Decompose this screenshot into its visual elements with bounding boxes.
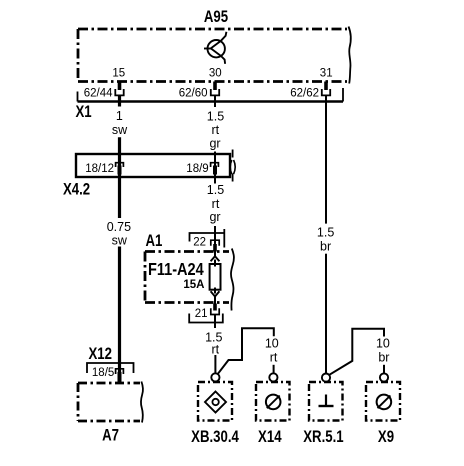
socket 21 pin bar: [213, 304, 217, 311]
X9 circle-slash symbol: [377, 395, 392, 410]
wire br from pin 31 upper segment: [325, 95, 327, 223]
branch to X9: diagonal from XR.5.1 node: [329, 329, 384, 375]
svg-text:F11-A24: F11-A24: [148, 260, 204, 280]
pin 15 stub: [118, 82, 122, 91]
wire into X14: [273, 365, 275, 374]
svg-text:rt: rt: [211, 123, 219, 137]
svg-text:62/62: 62/62: [290, 87, 319, 99]
branch to X14: diagonal from XB.30.4 node: [218, 328, 274, 374]
svg-text:X4.2: X4.2: [63, 180, 90, 199]
svg-text:A7: A7: [102, 426, 119, 445]
wire out of fuse: [214, 288, 216, 294]
X4.2 right end upper tick: [232, 150, 234, 158]
svg-text:0.75: 0.75: [107, 220, 131, 234]
node circle above XR.5.1: [322, 374, 330, 382]
X4.2 right break mark: [230, 160, 232, 174]
node circle above X9: [380, 373, 388, 381]
X4.2 pin hook 18/12: [116, 163, 124, 167]
svg-text:A1: A1: [146, 232, 163, 251]
X14 circle-slash symbol: [266, 395, 281, 410]
pin 31 stub: [324, 82, 328, 91]
svg-text:1.5: 1.5: [207, 109, 224, 123]
device box A7 top edge: [78, 382, 140, 385]
terminal box XB.30.4: [198, 382, 232, 421]
svg-text:gr: gr: [209, 210, 220, 224]
X12 pin bar: [118, 372, 122, 382]
svg-text:1.5: 1.5: [207, 183, 224, 197]
pin 30 socket: [211, 89, 219, 95]
X4.2 right end lower tick: [232, 174, 234, 182]
svg-text:rt: rt: [211, 342, 219, 356]
connector strip X1 line: [78, 100, 344, 103]
svg-text:10: 10: [265, 337, 279, 351]
fuse box left edge: [144, 252, 147, 303]
svg-text:XB.30.4: XB.30.4: [191, 428, 239, 447]
fuse element F11: [210, 264, 221, 290]
svg-text:sw: sw: [112, 233, 128, 247]
svg-text:A95: A95: [204, 8, 228, 27]
pin 31 socket: [322, 89, 330, 95]
svg-text:62/44: 62/44: [84, 87, 113, 99]
socket 22 pin bar: [213, 244, 217, 252]
wire rt/gr into X4.2: [214, 152, 216, 184]
node circle above X14: [269, 373, 277, 381]
A7 bottom edge: [78, 420, 140, 423]
node circle above XB.30.4: [211, 373, 219, 381]
svg-text:X9: X9: [378, 428, 394, 447]
wire rt to XB.30.4: [214, 355, 216, 373]
A95 box left edge: [77, 29, 80, 82]
svg-text:X1: X1: [76, 103, 92, 122]
wire to box edge: [214, 297, 216, 304]
connector strip X4.2 body: [76, 154, 230, 177]
svg-text:sw: sw: [112, 123, 128, 137]
wire into X9: [383, 365, 385, 374]
fuse box right continuation brace: [231, 249, 234, 311]
svg-text:1: 1: [116, 109, 123, 123]
socket 21 bracket: [189, 314, 223, 323]
X12 pin hook: [116, 369, 124, 374]
A95 box right continuation brace: [349, 27, 351, 84]
svg-text:22: 22: [193, 237, 206, 249]
svg-text:21: 21: [195, 308, 208, 320]
ignition switch symbol inside A95: [204, 32, 226, 64]
X1 right end tick: [342, 88, 344, 102]
svg-text:br: br: [320, 240, 331, 254]
terminal box XR.5.1: [309, 382, 343, 421]
svg-text:X12: X12: [89, 344, 112, 363]
fuse top plug chevron: [211, 256, 220, 261]
X4.2 pin bar 18/9: [213, 166, 217, 175]
svg-text:18/12: 18/12: [85, 163, 114, 175]
fuse box bottom edge: [145, 301, 229, 304]
svg-text:rt: rt: [270, 350, 278, 364]
wire into fuse: [214, 260, 216, 267]
A95 box top edge: [78, 28, 347, 31]
XR.5.1 ground symbol: [325, 395, 327, 407]
wire rt/gr into socket 22: [214, 226, 216, 244]
pin 30 stub: [213, 82, 217, 91]
svg-text:XR.5.1: XR.5.1: [303, 428, 343, 447]
pin 15 socket: [115, 89, 123, 95]
fuse bottom plug chevron: [211, 291, 220, 296]
svg-text:X14: X14: [258, 428, 282, 447]
svg-text:rt: rt: [212, 197, 220, 211]
svg-text:10: 10: [376, 337, 390, 351]
svg-text:30: 30: [209, 68, 222, 80]
terminal box X14: [256, 382, 290, 421]
XB.30.4 diamond centre circle: [212, 399, 218, 405]
svg-text:br: br: [378, 350, 389, 364]
wire black from X1 to X4.2: [118, 137, 121, 218]
svg-text:62/60: 62/60: [179, 87, 208, 99]
X1 left end tick: [77, 92, 79, 102]
svg-text:18/5: 18/5: [92, 367, 114, 379]
svg-text:1.5: 1.5: [317, 225, 334, 239]
svg-text:31: 31: [320, 68, 333, 80]
X4.2 pin hook 18/9: [211, 163, 219, 167]
connector X12 bracket: [87, 363, 134, 373]
A95 box bottom edge: [78, 80, 347, 83]
A7 left edge: [77, 383, 80, 421]
wire br from label to XR.5.1: [325, 254, 327, 374]
terminal box X9: [366, 382, 400, 421]
fuse box F11-A24 top edge: [145, 250, 229, 253]
svg-text:gr: gr: [209, 136, 220, 150]
svg-text:15A: 15A: [183, 279, 204, 291]
socket 22 pin hook: [211, 240, 219, 246]
socket 21 pin hook: [211, 308, 219, 314]
A7 right continuation brace: [141, 382, 143, 423]
XB.30.4 diamond symbol: [205, 392, 226, 413]
wire below socket 21: [214, 315, 216, 329]
X4.2 pin bar 18/12: [118, 166, 122, 175]
socket 22 bracket: [190, 233, 225, 242]
wire sw from label to A7: [118, 247, 121, 383]
wire from box edge to fuse chevron: [214, 252, 216, 258]
svg-text:15: 15: [112, 68, 125, 80]
svg-text:18/9: 18/9: [186, 163, 208, 175]
